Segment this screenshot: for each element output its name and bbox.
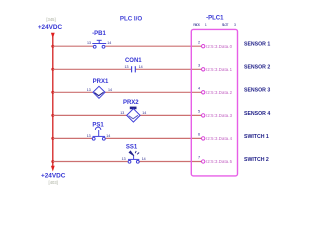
terminal pin 6 (202, 137, 205, 140)
svg-text:SENSOR 3: SENSOR 3 (244, 88, 270, 94)
svg-text:+24VDC: +24VDC (38, 24, 63, 31)
node +24VDC top (38, 17, 63, 31)
svg-text:14: 14 (142, 157, 146, 161)
proximity switch PRX2 (127, 107, 140, 123)
svg-text:14: 14 (107, 41, 111, 45)
wire row3 right (105, 91, 202, 93)
svg-text:1: 1 (205, 23, 207, 27)
terminal pin 7 (202, 160, 205, 163)
junction row2 (51, 68, 54, 71)
svg-text:13: 13 (120, 111, 124, 115)
junction row4 (51, 114, 54, 117)
wire row2 right (136, 68, 202, 70)
source arrow top (51, 33, 55, 39)
svg-text:PRX2: PRX2 (123, 100, 139, 106)
wire row1 left (53, 45, 93, 47)
wire row5 left (53, 137, 92, 139)
wire row3 left (53, 91, 93, 93)
pushbutton PB1 (92, 40, 106, 48)
svg-text:CON1: CON1 (125, 58, 142, 64)
svg-text:PLC I/O: PLC I/O (120, 15, 143, 22)
wire row6 left (53, 161, 128, 163)
svg-text:2: 2 (198, 40, 200, 44)
svg-text:[345]: [345] (46, 17, 55, 22)
svg-text:13: 13 (122, 157, 126, 161)
svg-text:3: 3 (234, 23, 236, 27)
svg-text:13: 13 (87, 41, 91, 45)
node +24VDC bottom (41, 173, 66, 185)
svg-text:PRX1: PRX1 (93, 79, 109, 85)
wire row5 right (105, 137, 201, 139)
svg-text:14: 14 (142, 111, 146, 115)
svg-text:14: 14 (139, 65, 143, 69)
junction row1 (51, 45, 54, 48)
svg-text:5: 5 (198, 110, 200, 114)
svg-text:I2:5:3.Data.1: I2:5:3.Data.1 (206, 67, 233, 72)
svg-text:SENSOR 1: SENSOR 1 (244, 42, 270, 48)
PLC module U-PLC1 (191, 29, 237, 176)
terminal pin 2 (202, 45, 205, 48)
source arrow bottom (51, 166, 55, 172)
svg-text:SLOT: SLOT (222, 23, 229, 27)
svg-text:6: 6 (198, 133, 200, 137)
svg-text:I2:5:3.Data.0: I2:5:3.Data.0 (206, 44, 233, 49)
svg-text:SWITCH 1: SWITCH 1 (244, 134, 269, 140)
svg-text:SENSOR 2: SENSOR 2 (244, 65, 270, 71)
proximity switch PRX1 (93, 86, 105, 98)
svg-text:7: 7 (198, 156, 200, 160)
junction row6 (51, 160, 54, 163)
wire row1 right (105, 45, 201, 47)
svg-text:PS1: PS1 (92, 122, 104, 128)
junction row3 (51, 91, 54, 94)
svg-text:[403]: [403] (49, 180, 58, 185)
selector switch SS1 (128, 150, 139, 163)
terminal pin 4 (202, 91, 205, 94)
svg-text:+24VDC: +24VDC (41, 173, 66, 180)
terminal pin 3 (202, 68, 205, 71)
svg-text:13: 13 (87, 88, 91, 92)
wire vertical bus (52, 37, 54, 168)
junction row5 (51, 137, 54, 140)
terminal pin 5 (202, 114, 205, 117)
svg-text:3: 3 (198, 64, 200, 68)
wire row6 right (139, 161, 201, 163)
svg-text:SENSOR 4: SENSOR 4 (244, 111, 270, 117)
svg-text:I2:5:3.Data.2: I2:5:3.Data.2 (206, 90, 233, 95)
wire row4 left (53, 114, 127, 116)
svg-text:I2:5:3.Data.5: I2:5:3.Data.5 (206, 159, 233, 164)
contact CON1 (132, 66, 136, 72)
svg-text:14: 14 (108, 88, 112, 92)
svg-text:SWITCH 2: SWITCH 2 (244, 157, 269, 163)
svg-text:14: 14 (106, 134, 110, 138)
wire row4 right (140, 114, 201, 116)
pressure switch PS1 (92, 127, 105, 140)
svg-text:RACK: RACK (193, 23, 201, 27)
svg-text:I2:5:3.Data.3: I2:5:3.Data.3 (206, 113, 233, 118)
svg-text:-PB1: -PB1 (92, 31, 106, 37)
svg-text:SS1: SS1 (126, 145, 138, 151)
svg-text:I2:5:3.Data.4: I2:5:3.Data.4 (206, 136, 233, 141)
svg-text:4: 4 (198, 87, 200, 91)
svg-text:13: 13 (125, 65, 129, 69)
wire row2 left (53, 68, 132, 70)
svg-text:-PLC1: -PLC1 (206, 16, 224, 22)
svg-text:13: 13 (87, 134, 91, 138)
